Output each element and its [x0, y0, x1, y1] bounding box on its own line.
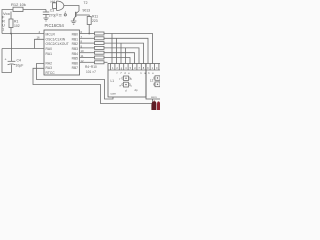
resistor R8 — [95, 51, 105, 54]
svg-text:5: 5 — [130, 66, 132, 70]
logo watermark blob — [151, 101, 160, 110]
wire speaker to collector — [64, 6, 79, 12]
svg-text:R12 10k: R12 10k — [11, 2, 26, 7]
wire bus row4 drop left — [125, 48, 127, 64]
wire R12 to C3 node — [23, 9, 46, 11]
svg-text:MCLR: MCLR — [46, 33, 56, 37]
svg-text:0: 0 — [156, 66, 158, 70]
wire bus row2 — [104, 38, 148, 63]
wire VSS rail down — [2, 49, 12, 73]
svg-text:10µF: 10µF — [16, 64, 24, 68]
svg-text:R4~R10: R4~R10 — [85, 65, 97, 69]
wire bus row2 drop left — [116, 38, 118, 63]
svg-text:d: d — [124, 71, 126, 75]
svg-text:b: b — [131, 77, 133, 81]
svg-text:dp: dp — [135, 88, 139, 92]
svg-text:1: 1 — [140, 71, 142, 75]
svg-text:7: 7 — [120, 71, 122, 75]
resistor R1 — [9, 19, 13, 28]
display module 2 box — [146, 64, 161, 100]
svg-text:101 ×7: 101 ×7 — [86, 70, 96, 74]
resistor R9 — [95, 56, 105, 59]
svg-text:HA: HA — [51, 0, 56, 4]
capacitor C3 — [45, 10, 47, 13]
svg-text:f: f — [117, 71, 118, 75]
wire MCLR — [2, 33, 44, 35]
svg-text:b: b — [148, 71, 150, 75]
resistor R7 — [95, 46, 105, 49]
wire bus row7 — [104, 61, 108, 63]
wire RA2 com1 — [37, 64, 114, 100]
digit bracket marks — [122, 77, 130, 86]
display pin cells — [108, 69, 161, 71]
wire RB3 row — [80, 47, 95, 49]
svg-text:Y: Y — [56, 13, 59, 17]
svg-text:RB2: RB2 — [72, 42, 79, 46]
svg-text:d: d — [134, 66, 136, 70]
resistor R12 — [13, 7, 23, 11]
svg-text:223: 223 — [92, 19, 98, 23]
svg-text:RA1: RA1 — [46, 52, 53, 56]
svg-text:RB7: RB7 — [72, 66, 79, 70]
svg-text:d: d — [125, 89, 127, 93]
svg-text:RA3: RA3 — [46, 66, 53, 70]
wire bus row3 drop left — [120, 43, 122, 63]
wire bus row4 — [104, 48, 139, 64]
wire RB2 row — [80, 42, 95, 44]
svg-text:C3: C3 — [50, 9, 54, 13]
svg-text:c: c — [131, 83, 133, 87]
svg-text:T2: T2 — [84, 1, 88, 5]
wire OSC1 step — [35, 39, 45, 48]
ground under transistor — [71, 19, 77, 24]
wire R1 bottom stub — [10, 28, 12, 34]
svg-text:RB5: RB5 — [72, 57, 79, 61]
svg-text:8: 8 — [143, 66, 145, 70]
svg-text:1: 1 — [112, 66, 114, 70]
svg-text:g: g — [121, 67, 123, 70]
node junction dot R1/MCLR — [10, 33, 12, 35]
svg-text:com: com — [151, 95, 157, 99]
svg-text:RB0: RB0 — [72, 33, 79, 37]
svg-text:RA2: RA2 — [46, 61, 53, 65]
svg-text:7: 7 — [138, 66, 140, 70]
wire RB6 row — [80, 61, 95, 63]
speaker HA — [53, 3, 57, 9]
capacitor C4 electrolytic — [11, 34, 13, 62]
wire VDD rail top — [2, 10, 13, 34]
wire RA0 — [2, 48, 44, 50]
svg-text:com: com — [111, 92, 117, 96]
svg-text:9013: 9013 — [83, 9, 91, 13]
wire bus row1 — [104, 34, 153, 64]
wire R1 top stub — [10, 12, 12, 20]
digit 2 seven-seg — [155, 76, 160, 81]
svg-text:RA0: RA0 — [46, 47, 53, 51]
resistor R10 — [95, 61, 105, 64]
wire bus row3 — [104, 43, 144, 63]
svg-text:e: e — [152, 72, 154, 75]
wire RB0 row — [80, 33, 95, 35]
svg-text:C4: C4 — [17, 59, 21, 63]
resistor R4 — [95, 32, 105, 35]
svg-text:OSC2/CLKOUT: OSC2/CLKOUT — [46, 42, 69, 46]
wire bus row1 drop left — [111, 34, 113, 64]
svg-text:4: 4 — [125, 66, 127, 70]
digit 1 seven-seg — [124, 76, 129, 81]
wire bus row6 — [104, 58, 130, 64]
wire RA3 com2 — [33, 68, 153, 103]
resistor R5 — [95, 37, 105, 40]
svg-text:e: e — [128, 72, 130, 75]
op IC U1 PIC16C54 box — [44, 30, 80, 75]
svg-text:RTCC: RTCC — [46, 71, 56, 75]
svg-text:2: 2 — [116, 66, 118, 70]
display LED box U2 — [108, 64, 146, 98]
wire bus row5 — [104, 53, 135, 64]
svg-text:OSC1/CLKIN: OSC1/CLKIN — [46, 37, 66, 41]
svg-text:102: 102 — [14, 24, 20, 28]
svg-text:1: 1 — [2, 28, 4, 32]
svg-text:f: f — [120, 77, 121, 81]
svg-text:RB3: RB3 — [72, 47, 79, 51]
svg-text:L1: L1 — [111, 79, 115, 83]
svg-text:9: 9 — [147, 66, 149, 70]
resistor R6 — [95, 42, 105, 45]
svg-text:1: 1 — [152, 66, 154, 70]
wire RB1 row — [80, 37, 95, 39]
svg-text:e: e — [120, 83, 122, 87]
svg-text:RB6: RB6 — [72, 61, 79, 65]
svg-text:L2: L2 — [150, 78, 154, 82]
wire RB4 row — [80, 52, 95, 54]
ground under C3 — [43, 18, 48, 21]
resistor R11 — [87, 15, 89, 17]
svg-text:RB1: RB1 — [72, 37, 79, 41]
svg-text:PIC16C54: PIC16C54 — [45, 23, 65, 28]
transistor Q2 9013 — [76, 11, 79, 13]
svg-text:+: + — [5, 58, 7, 62]
wire RB5 row — [80, 57, 95, 59]
svg-text:RB4: RB4 — [72, 52, 79, 56]
